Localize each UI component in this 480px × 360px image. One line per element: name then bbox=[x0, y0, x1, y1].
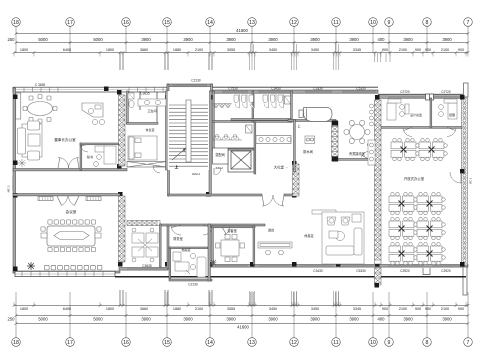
archive room walls bbox=[169, 224, 212, 281]
svg-text:1880: 1880 bbox=[173, 48, 181, 52]
finance room hatched band bbox=[127, 221, 160, 226]
bottom axis dimension line bbox=[8, 314, 470, 321]
svg-text:C2720: C2720 bbox=[400, 90, 410, 94]
svg-text:18: 18 bbox=[13, 340, 19, 346]
svg-text:3555: 3555 bbox=[227, 48, 235, 52]
top exterior wall middle section bbox=[213, 87, 379, 93]
svg-text:17: 17 bbox=[67, 340, 73, 346]
svg-text:C7530: C7530 bbox=[228, 87, 238, 91]
secretary door bbox=[81, 145, 89, 153]
svg-text:3900: 3900 bbox=[183, 37, 193, 42]
svg-text:上: 上 bbox=[175, 164, 178, 169]
svg-text:900: 900 bbox=[425, 307, 431, 311]
svg-text:2100: 2100 bbox=[399, 48, 407, 52]
column bbox=[375, 262, 380, 267]
chairman desk bbox=[82, 103, 105, 125]
column bbox=[460, 262, 465, 267]
svg-text:3900: 3900 bbox=[349, 316, 359, 321]
svg-text:会议室: 会议室 bbox=[66, 209, 77, 214]
reception door bbox=[361, 151, 369, 157]
chairman oval table bbox=[23, 95, 57, 124]
svg-text:休息区: 休息区 bbox=[304, 233, 314, 238]
svg-text:9: 9 bbox=[388, 340, 391, 346]
top axis dimension line bbox=[8, 37, 470, 44]
top exterior wall left section bbox=[13, 87, 167, 92]
svg-text:变配间: 变配间 bbox=[215, 152, 225, 157]
column bbox=[13, 161, 18, 166]
svg-text:茶水间: 茶水间 bbox=[303, 149, 314, 154]
lobby wall bbox=[167, 226, 169, 269]
service counter bbox=[256, 136, 291, 144]
reception labels bbox=[349, 143, 369, 156]
finance room doors bbox=[171, 225, 213, 235]
svg-text:2100: 2100 bbox=[399, 307, 407, 311]
svg-text:16: 16 bbox=[123, 20, 129, 26]
svg-text:7: 7 bbox=[467, 20, 470, 26]
svg-text:JHM-1: JHM-1 bbox=[192, 172, 201, 176]
svg-text:设计总监: 设计总监 bbox=[410, 112, 422, 117]
svg-text:5000: 5000 bbox=[93, 37, 103, 42]
column bbox=[292, 161, 297, 166]
column bbox=[292, 193, 297, 198]
corridor south wall mid bbox=[160, 224, 265, 226]
column bbox=[375, 127, 380, 132]
svg-text:10: 10 bbox=[370, 340, 376, 346]
svg-text:3660: 3660 bbox=[140, 307, 148, 311]
svg-text:7: 7 bbox=[467, 340, 470, 346]
svg-text:3900: 3900 bbox=[403, 37, 413, 42]
svg-text:250: 250 bbox=[8, 316, 16, 321]
svg-text:秘书: 秘书 bbox=[87, 154, 93, 159]
podium bbox=[258, 242, 292, 255]
bottom grid bubbles bbox=[12, 324, 473, 347]
svg-text:15: 15 bbox=[164, 20, 170, 26]
svg-text:3345: 3345 bbox=[353, 307, 361, 311]
bottom exterior wall main section bbox=[209, 265, 468, 268]
svg-text:JHM-2: JHM-2 bbox=[215, 166, 223, 170]
toilet stalls upper bbox=[234, 94, 291, 108]
staircase bbox=[168, 91, 210, 170]
svg-text:3900: 3900 bbox=[226, 37, 236, 42]
column bbox=[117, 90, 122, 95]
svg-text:3450: 3450 bbox=[311, 307, 319, 311]
svg-text:1800: 1800 bbox=[20, 307, 28, 311]
svg-text:档案室: 档案室 bbox=[181, 247, 190, 252]
svg-text:13: 13 bbox=[249, 340, 255, 346]
svg-text:C2920: C2920 bbox=[400, 269, 410, 273]
left exterior wall bbox=[13, 88, 16, 273]
bottom overall dimension line 41600 bbox=[15, 322, 470, 329]
hatched pier chairman/bath bbox=[119, 95, 126, 166]
conference room right hatched pier bbox=[119, 196, 126, 262]
svg-text:大礼堂 →: 大礼堂 → bbox=[274, 165, 289, 170]
toilet mid wall bbox=[231, 119, 291, 121]
archive furniture bbox=[173, 252, 206, 277]
reception east chairs bbox=[370, 104, 374, 126]
bathroom walls bbox=[127, 91, 159, 124]
column bbox=[460, 95, 465, 100]
svg-text:3555: 3555 bbox=[227, 307, 235, 311]
svg-text:3900: 3900 bbox=[442, 316, 452, 321]
pier below wall bbox=[375, 268, 382, 288]
svg-text:5000: 5000 bbox=[93, 316, 103, 321]
svg-text:休息室: 休息室 bbox=[145, 127, 154, 132]
svg-text:250: 250 bbox=[8, 37, 16, 42]
svg-text:3900: 3900 bbox=[442, 37, 452, 42]
west chairs column bbox=[368, 140, 375, 165]
svg-text:C3330: C3330 bbox=[313, 87, 323, 91]
column bbox=[208, 95, 213, 100]
svg-text:900: 900 bbox=[415, 48, 421, 52]
svg-text:5000: 5000 bbox=[38, 316, 48, 321]
svg-text:C2130: C2130 bbox=[188, 283, 198, 287]
svg-text:18: 18 bbox=[13, 20, 19, 26]
media table bbox=[312, 210, 336, 214]
conference room top wall bbox=[13, 194, 120, 201]
manager office furniture bbox=[439, 99, 457, 119]
svg-text:14: 14 bbox=[207, 20, 213, 26]
column bbox=[104, 87, 109, 92]
svg-text:C3430: C3430 bbox=[313, 269, 323, 273]
svg-text:财务室: 财务室 bbox=[173, 236, 183, 241]
svg-text:16: 16 bbox=[123, 340, 129, 346]
svg-text:1800: 1800 bbox=[106, 307, 114, 311]
svg-text:3900: 3900 bbox=[226, 316, 236, 321]
plant at meeting room corner bbox=[211, 260, 217, 266]
svg-text:C5330: C5330 bbox=[356, 269, 366, 273]
corridor hatched pier east bbox=[293, 164, 300, 196]
stair bay top wall bbox=[167, 84, 213, 91]
svg-text:3450: 3450 bbox=[269, 307, 277, 311]
svg-text:400: 400 bbox=[378, 316, 386, 321]
entry tab bottom bbox=[423, 268, 430, 275]
chairman suite bottom wall bbox=[13, 169, 127, 171]
secretary desk bbox=[94, 146, 116, 166]
meeting table bbox=[216, 235, 245, 262]
svg-text:3900: 3900 bbox=[268, 37, 278, 42]
svg-text:3900: 3900 bbox=[403, 316, 413, 321]
tea room sink bbox=[305, 136, 315, 144]
tea room walls bbox=[294, 120, 314, 173]
toilet block walls bbox=[213, 91, 293, 174]
svg-text:3900: 3900 bbox=[310, 37, 320, 42]
svg-text:3345: 3345 bbox=[353, 48, 361, 52]
column bbox=[250, 262, 255, 267]
chairman double door bbox=[58, 158, 79, 169]
stage wall bbox=[288, 120, 336, 129]
svg-text:3900: 3900 bbox=[141, 37, 151, 42]
column bbox=[13, 193, 18, 198]
stair hall west wall bbox=[168, 169, 170, 197]
svg-text:13: 13 bbox=[249, 20, 255, 26]
column bbox=[460, 169, 465, 174]
meeting room walls bbox=[212, 226, 256, 265]
column bbox=[336, 262, 341, 267]
bathroom fixtures bbox=[128, 93, 166, 108]
plant bbox=[18, 159, 26, 167]
svg-text:15: 15 bbox=[164, 340, 170, 346]
svg-text:C2130: C2130 bbox=[191, 79, 201, 83]
svg-text:3900: 3900 bbox=[349, 37, 359, 42]
bottom thick grid stubs bbox=[14, 290, 468, 306]
meeting room door bbox=[224, 227, 230, 235]
manager office walls bbox=[381, 98, 462, 128]
svg-text:3900: 3900 bbox=[183, 316, 193, 321]
svg-text:C 3635: C 3635 bbox=[35, 83, 46, 87]
column bbox=[375, 95, 380, 100]
toilet west urinals bbox=[213, 104, 232, 108]
west pier of office block bbox=[375, 100, 382, 264]
svg-text:贵宾接待室: 贵宾接待室 bbox=[349, 151, 365, 156]
stair enclosure walls bbox=[166, 91, 212, 196]
svg-text:MC-1: MC-1 bbox=[469, 177, 473, 184]
window labels bottom bbox=[142, 264, 451, 273]
svg-text:1800: 1800 bbox=[20, 48, 28, 52]
column bbox=[375, 166, 380, 171]
svg-text:17: 17 bbox=[67, 20, 73, 26]
manager office doors bbox=[403, 127, 456, 136]
svg-text:C3635: C3635 bbox=[140, 92, 150, 96]
svg-text:3450: 3450 bbox=[311, 48, 319, 52]
bottom extension lines bbox=[16, 292, 468, 324]
secretary room walls bbox=[80, 143, 119, 170]
svg-text:会客室: 会客室 bbox=[227, 228, 237, 233]
svg-text:11: 11 bbox=[333, 340, 338, 346]
tea room hatched pier bbox=[332, 121, 339, 162]
reception room walls bbox=[338, 159, 377, 161]
svg-text:3450: 3450 bbox=[269, 48, 277, 52]
svg-text:2100: 2100 bbox=[441, 307, 449, 311]
chairman sofa set bbox=[18, 121, 43, 160]
column bbox=[292, 262, 297, 267]
svg-text:C5330: C5330 bbox=[356, 87, 366, 91]
open office clusters north bbox=[391, 138, 447, 160]
svg-text:400: 400 bbox=[378, 37, 386, 42]
svg-text:2100: 2100 bbox=[195, 307, 203, 311]
conference chairs bbox=[41, 220, 102, 270]
column bbox=[375, 193, 380, 198]
electrical room label bbox=[213, 148, 229, 175]
bedroom bed bbox=[128, 136, 157, 160]
top detail dimension line bbox=[13, 44, 470, 54]
svg-text:C2920: C2920 bbox=[441, 269, 451, 273]
finance desk cluster bbox=[132, 228, 158, 262]
top extension stubs bbox=[14, 53, 468, 70]
open office clusters rows bbox=[389, 192, 445, 264]
column bbox=[165, 262, 170, 267]
svg-text:900: 900 bbox=[382, 307, 388, 311]
column bbox=[13, 95, 18, 100]
svg-text:12: 12 bbox=[291, 20, 297, 26]
right exterior wall strip bbox=[462, 83, 469, 295]
svg-text:1880: 1880 bbox=[173, 307, 181, 311]
svg-text:讲台: 讲台 bbox=[268, 228, 274, 233]
window labels top bbox=[35, 83, 451, 96]
auditorium double door bbox=[262, 195, 284, 206]
column bbox=[13, 267, 18, 272]
reception round table bbox=[344, 120, 370, 143]
svg-text:1800: 1800 bbox=[106, 48, 114, 52]
svg-text:11: 11 bbox=[333, 20, 338, 26]
column bbox=[206, 192, 211, 197]
left wall inner cabinet bbox=[16, 93, 21, 119]
svg-text:2100: 2100 bbox=[195, 48, 203, 52]
svg-text:经理: 经理 bbox=[449, 112, 455, 117]
svg-text:12: 12 bbox=[291, 340, 297, 346]
svg-text:3900: 3900 bbox=[310, 316, 320, 321]
bedroom/corridor X brace band bbox=[127, 162, 167, 168]
svg-text:5000: 5000 bbox=[38, 37, 48, 42]
svg-text:8: 8 bbox=[426, 340, 429, 346]
bottom exterior wall mid-left section bbox=[119, 268, 168, 271]
svg-text:41600: 41600 bbox=[236, 28, 248, 33]
svg-text:卫生间: 卫生间 bbox=[147, 108, 156, 113]
stair exit double door bbox=[177, 160, 196, 170]
top exterior wall right section bbox=[378, 94, 463, 98]
svg-text:9: 9 bbox=[388, 20, 391, 26]
svg-text:3900: 3900 bbox=[268, 316, 278, 321]
column bbox=[208, 262, 213, 267]
bottom exterior wall left section bbox=[13, 271, 120, 277]
left entry door bbox=[7, 176, 14, 192]
svg-text:900: 900 bbox=[425, 48, 431, 52]
top-right window divider pier bbox=[426, 94, 434, 100]
svg-text:3900: 3900 bbox=[141, 316, 151, 321]
lounge furniture group bbox=[322, 212, 364, 264]
right side entry door bbox=[450, 172, 473, 184]
svg-text:41600: 41600 bbox=[237, 325, 249, 330]
svg-text:C2720: C2720 bbox=[441, 90, 451, 94]
svg-text:900: 900 bbox=[382, 48, 388, 52]
svg-text:8: 8 bbox=[426, 20, 429, 26]
svg-text:2100: 2100 bbox=[441, 48, 449, 52]
elevator shaft bbox=[228, 148, 254, 172]
grand piano bbox=[299, 108, 332, 122]
plinth line bbox=[115, 276, 466, 278]
svg-text:MC-3: MC-3 bbox=[7, 185, 11, 192]
svg-text:董事长办公室: 董事长办公室 bbox=[54, 137, 76, 142]
corridor south wall at auditorium bbox=[168, 194, 294, 196]
svg-text:6400: 6400 bbox=[63, 48, 71, 52]
bottom detail dimension line bbox=[13, 304, 470, 311]
svg-text:10: 10 bbox=[370, 20, 376, 26]
svg-text:开放式办公室: 开放式办公室 bbox=[404, 176, 425, 181]
svg-text:900: 900 bbox=[458, 307, 464, 311]
top overall dimension line 41600 bbox=[15, 28, 470, 35]
conference plant bbox=[27, 262, 35, 270]
svg-text:C3635: C3635 bbox=[142, 264, 152, 268]
conference table bbox=[41, 226, 101, 246]
svg-text:14: 14 bbox=[207, 340, 213, 346]
finance east wall bbox=[160, 224, 162, 267]
bedroom door bbox=[153, 166, 160, 173]
svg-text:900: 900 bbox=[458, 48, 464, 52]
svg-text:3660: 3660 bbox=[140, 48, 148, 52]
toilet stalls lower arcs bbox=[212, 125, 252, 140]
svg-text:6400: 6400 bbox=[63, 307, 71, 311]
svg-text:C3430: C3430 bbox=[271, 87, 281, 91]
column bbox=[118, 192, 123, 197]
column bbox=[117, 164, 122, 169]
design director office bbox=[387, 99, 409, 120]
svg-text:900: 900 bbox=[415, 307, 421, 311]
top grid bubbles and stems bbox=[12, 18, 473, 53]
column bbox=[165, 95, 170, 100]
conference double door bbox=[57, 196, 79, 205]
column bbox=[118, 262, 123, 267]
